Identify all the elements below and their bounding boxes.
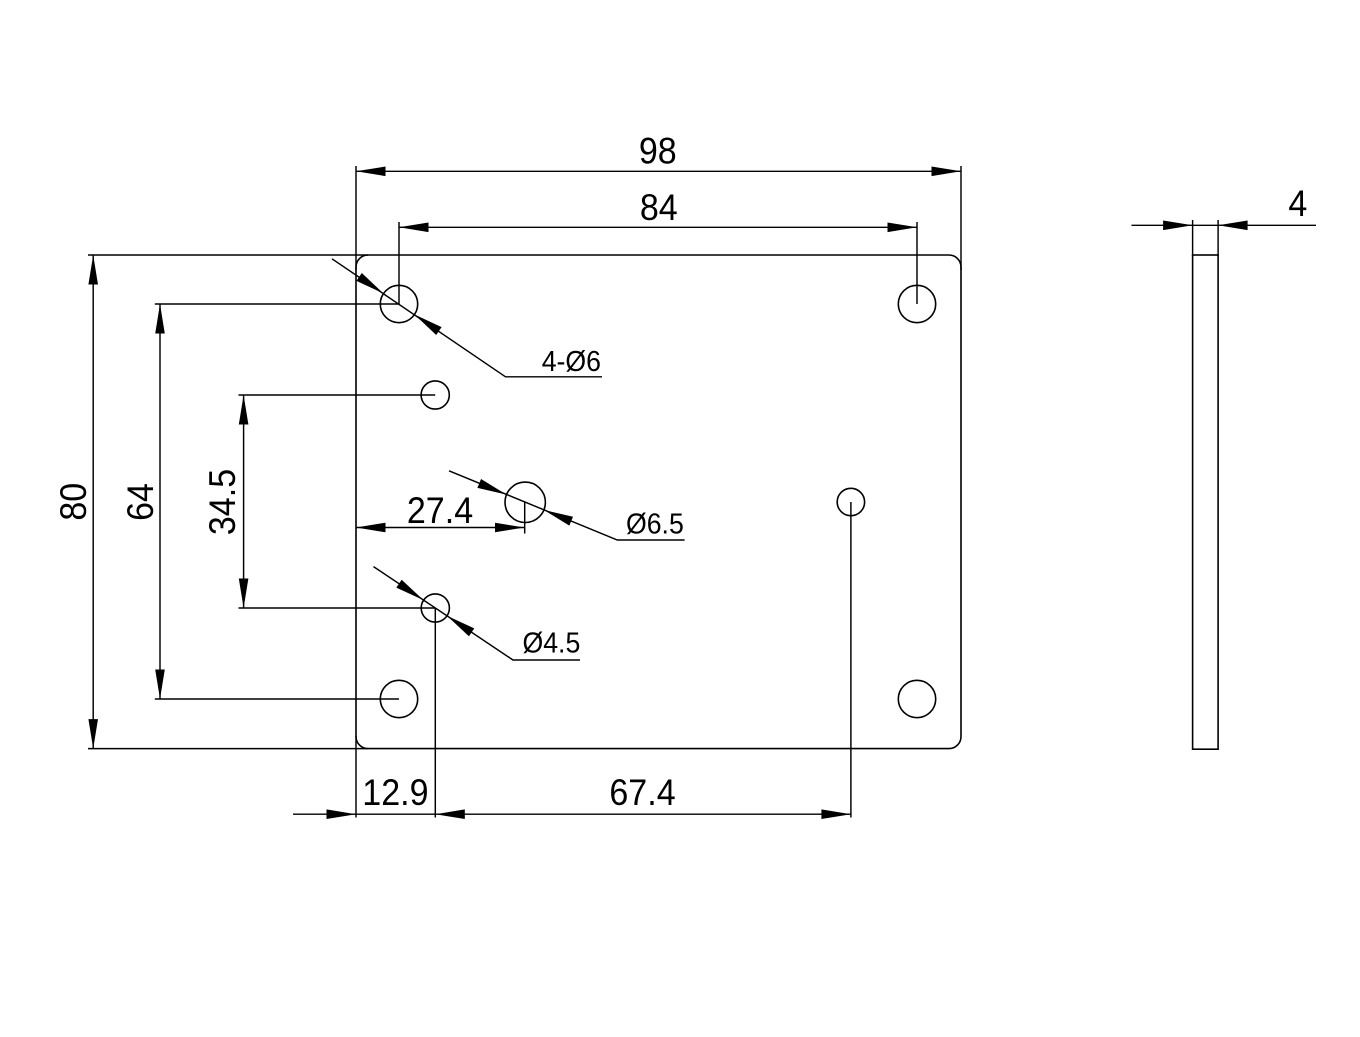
svg-text:64: 64	[120, 483, 162, 521]
corner hole bottom-left (Ø6)	[380, 680, 417, 717]
dimension 64 extension line bottom	[155, 698, 399, 700]
dimension 64 extension line top	[155, 303, 399, 305]
plate outline (front view, 98x80 rounded rect)	[356, 255, 961, 749]
dimension 64 line	[155, 304, 165, 699]
dimension 4 extension line left	[1192, 220, 1194, 256]
svg-text:27.4: 27.4	[407, 490, 473, 532]
svg-text:80: 80	[53, 483, 95, 521]
svg-text:12.9: 12.9	[362, 772, 428, 814]
svg-text:84: 84	[640, 187, 678, 229]
dimension 80 extension line bottom	[88, 748, 368, 750]
small upper hole	[421, 381, 449, 409]
svg-text:4-Ø6: 4-Ø6	[542, 345, 601, 377]
svg-text:67.4: 67.4	[609, 772, 675, 814]
dimension 98 extension line right	[960, 166, 962, 270]
extension line from right hole down	[850, 502, 852, 818]
dimension 98 line	[356, 167, 961, 177]
dimension 84 extension line left	[398, 222, 400, 304]
svg-text:Ø4.5: Ø4.5	[522, 626, 580, 658]
dimension 98 extension line left	[355, 166, 357, 270]
dimension 34.5 extension line top	[239, 394, 436, 396]
dimension 4 extension line right	[1217, 220, 1219, 256]
svg-text:4: 4	[1288, 183, 1307, 225]
dimension 84 extension line right	[916, 222, 918, 304]
dimension 12.9 / 67.4 line	[293, 809, 851, 819]
side view plate (thickness 4)	[1193, 255, 1219, 749]
dimension 34.5 line	[239, 395, 249, 608]
dimension 27.4 line	[356, 523, 525, 533]
center hole (Ø6.5)	[505, 482, 545, 522]
extension line from Ø4.5 hole down	[434, 608, 436, 818]
dimension 84 line	[399, 223, 917, 233]
leader Ø6.5 line	[449, 471, 685, 540]
dimension 80 extension line top	[88, 254, 368, 256]
leader 4-Ø6 line	[332, 259, 602, 377]
svg-text:98: 98	[639, 130, 677, 172]
small lower hole (Ø4.5)	[421, 594, 449, 622]
svg-text:Ø6.5: Ø6.5	[626, 507, 684, 539]
small right hole	[837, 488, 864, 515]
corner hole bottom-right (Ø6)	[898, 680, 935, 717]
corner hole top-right (Ø6)	[898, 285, 935, 322]
dimension 80 line	[88, 255, 98, 749]
corner hole top-left (Ø6)	[380, 285, 417, 322]
svg-text:34.5: 34.5	[202, 469, 244, 535]
dimension 27.4 extension line (from center hole)	[524, 502, 526, 533]
dimension 4 line	[1132, 221, 1317, 231]
leader Ø4.5 line	[374, 567, 581, 660]
extension line plate left edge down	[355, 736, 357, 818]
dimension 34.5 extension line bottom	[239, 607, 436, 609]
